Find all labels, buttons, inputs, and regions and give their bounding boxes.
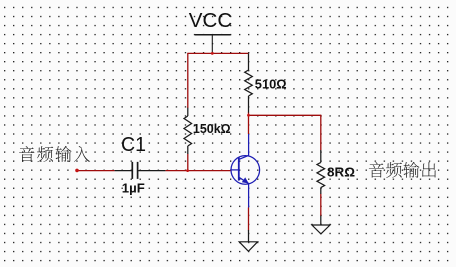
wire base node to transistor base (188, 170, 232, 172)
ground lead right (320, 216, 322, 225)
terminal audio input (75, 169, 79, 173)
capacitor C1 leads (115, 170, 166, 172)
transistor Q1 emitter (239, 177, 249, 207)
wire collector node vertical (248, 112, 250, 134)
wire left branch upper (VCC to R 150k) (187, 53, 189, 108)
resistor 510ohm body (245, 70, 253, 96)
svg-text:510Ω: 510Ω (255, 77, 287, 92)
junction VCC rail (211, 52, 214, 55)
svg-text:C1: C1 (121, 133, 146, 156)
transistor Q1 base lead (231, 169, 239, 171)
wire 8R to ground (320, 194, 322, 216)
label audio output (Chinese) (369, 162, 436, 178)
wire right branch upper (to 8R) (320, 115, 322, 151)
junction base node (186, 169, 189, 172)
svg-text:150kΩ: 150kΩ (193, 121, 231, 136)
capacitor C1 plates (132, 162, 137, 179)
resistor 150kohm body (184, 116, 192, 146)
wire emitter to ground (248, 208, 250, 231)
ground lead center (248, 230, 250, 242)
label audio input (Chinese) (19, 146, 90, 162)
wire C1 to base node (165, 170, 187, 172)
power symbol VCC (195, 35, 231, 54)
transistor Q1 base bar (238, 157, 240, 180)
resistor 510ohm leads (248, 53, 250, 112)
transistor Q1 collector (239, 134, 249, 159)
svg-text:1µF: 1µF (122, 181, 145, 196)
wire VCC rail top horizontal (188, 52, 249, 54)
svg-text:8RΩ: 8RΩ (327, 165, 355, 180)
resistor 8Rohm leads (320, 150, 322, 194)
wire audio input to C1 (77, 170, 115, 172)
wire collector node to right branch (249, 114, 321, 116)
transistor Q1 circle (231, 156, 260, 185)
ground symbol center (239, 242, 257, 252)
wire left branch lower (R 150k to base node) (187, 154, 189, 171)
ground symbol right (312, 225, 330, 234)
resistor 150kohm leads (187, 108, 189, 154)
resistor 8Rohm body (317, 162, 325, 187)
junction collector node (247, 114, 250, 117)
transistor Q1 emitter arrow (242, 177, 249, 183)
svg-text:VCC: VCC (189, 9, 233, 32)
